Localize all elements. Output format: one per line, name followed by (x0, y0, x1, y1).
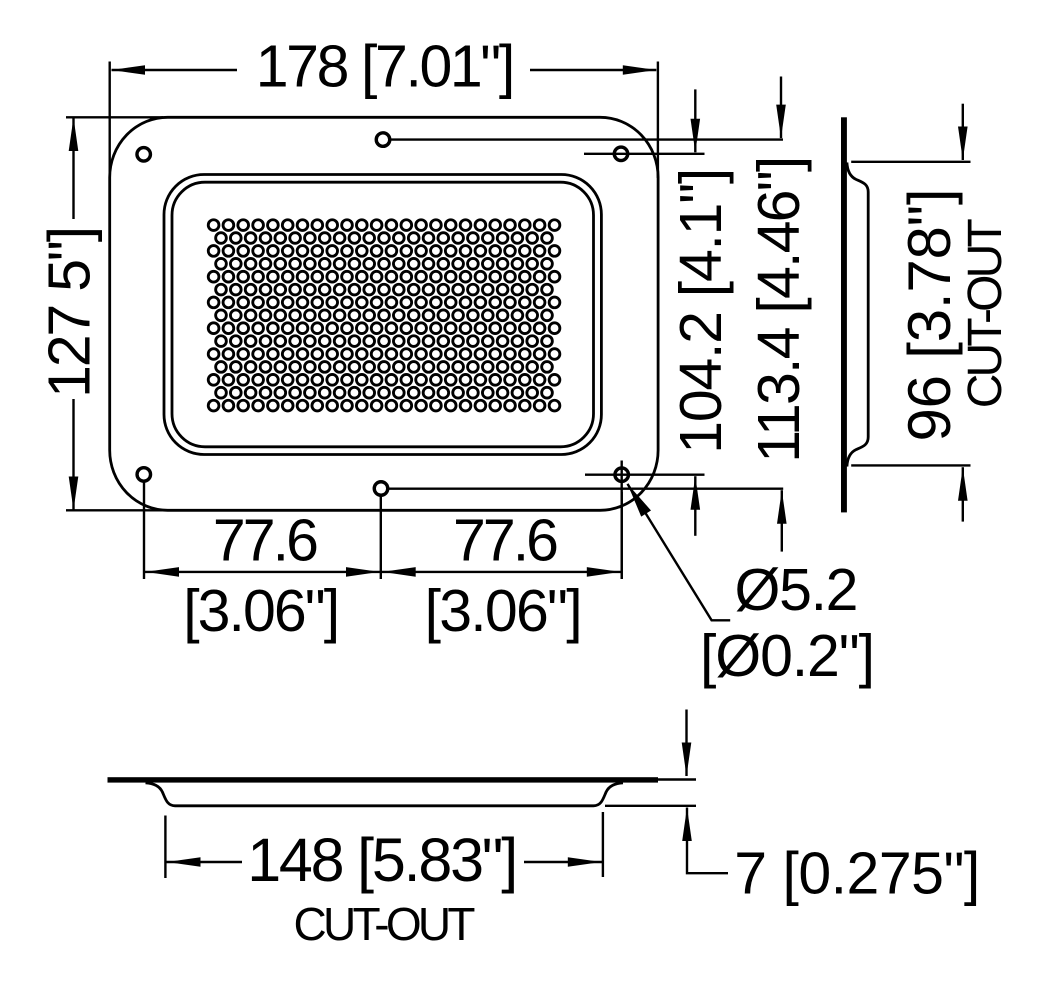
front view: perforated grille hole grid (208, 220, 560, 411)
cutout 96: bottom arrow (outside, pointing up) (962, 467, 964, 521)
front view: recessed dish outer ring (164, 175, 601, 455)
cutout 96: bottom extension line (851, 464, 970, 466)
svg-text:[3.06"]: [3.06"] (425, 578, 583, 644)
bottom view: dish profile (146, 783, 624, 806)
dim 113.4: top arrow (outside, pointing down) (780, 77, 782, 139)
svg-text:7 [0.275"]: 7 [0.275"] (734, 841, 980, 907)
crosshair horizontal line / extension to 104.2 dim (585, 474, 705, 476)
mounting hole top-left (137, 148, 151, 162)
svg-text:96 [3.78"]: 96 [3.78"] (896, 189, 963, 442)
svg-text:[3.06"]: [3.06"] (183, 578, 340, 644)
dim 178: left dimension line + arrow (112, 69, 238, 71)
mounting hole bottom-center (374, 482, 388, 496)
front view: recessed dish inner ring (172, 182, 594, 447)
svg-text:113.4 [4.46"]: 113.4 [4.46"] (746, 156, 812, 463)
dim 104.2: top arrow (outside, pointing down) (694, 89, 696, 152)
svg-text:CUT-OUT: CUT-OUT (294, 898, 476, 950)
dim 113.4: bottom extension line (center-hole row) (389, 488, 783, 490)
hole diameter leader line (628, 484, 731, 620)
svg-text:Ø5.2: Ø5.2 (735, 557, 859, 623)
dim 178: left extension line (108, 62, 110, 181)
dim 77.6 right: dimension line with outward arrows (381, 571, 622, 573)
svg-text:178 [7.01"]: 178 [7.01"] (256, 33, 516, 99)
svg-text:127 5"]: 127 5"] (37, 226, 103, 398)
dim 178: right extension line (657, 62, 659, 179)
dim 113.4: top extension line (center-hole row) (391, 138, 783, 140)
dim 127: lower dimension line + arrow (72, 399, 74, 510)
dim 104.2: top extension line (corner-hole row) (584, 153, 705, 155)
bottom view: plate face (thick bar) (108, 777, 659, 782)
cutout 96: top extension line (851, 161, 970, 163)
dim 7: extension line of dish bottom (605, 805, 696, 807)
mounting hole bottom-left (137, 468, 151, 482)
cutout 148: left dimension line + arrow (165, 861, 242, 863)
dim 77.6 left: extension line from bottom-left hole (143, 482, 145, 579)
svg-text:148 [5.83"]: 148 [5.83"] (247, 826, 518, 894)
svg-text:CUT-OUT: CUT-OUT (959, 218, 1012, 408)
cutout 148: left extension line (164, 816, 166, 879)
side view: plate edge (thick bar) (841, 117, 847, 512)
crosshair vertical line through bottom-right hole (621, 461, 623, 580)
dim 77.6 left: dimension line with outward arrows (144, 571, 381, 573)
dim 7: extension line right of bar (658, 778, 696, 780)
dim 7: upper arrow (outside, pointing down) (685, 710, 687, 777)
cutout 148: right dimension line + arrow (524, 861, 603, 863)
svg-text:104.2 [4.1"]: 104.2 [4.1"] (668, 168, 734, 454)
front view: outer plate outline (110, 117, 658, 510)
cutout 148: right extension line (602, 812, 604, 877)
dim 77.6: center extension line from bottom-center hole (380, 496, 382, 579)
svg-text:77.6: 77.6 (213, 507, 319, 573)
dim 77.6 right: extension line below crosshair hole (621, 492, 623, 579)
dim 104.2: bottom arrow (outside, pointing up) (694, 476, 696, 536)
cutout 96: top arrow (outside, pointing down) (962, 104, 964, 160)
dim 113.4: bottom arrow (outside, pointing up) (781, 490, 783, 551)
side view: dish profile (847, 163, 868, 467)
mounting hole bottom-right with crosshair (615, 468, 629, 482)
mounting hole top-right (614, 147, 628, 161)
dim 127: top extension line (66, 116, 163, 118)
dim 7: lower arrow + leader to text (687, 808, 728, 874)
dim 127: bottom extension line (66, 509, 163, 511)
mounting hole top-center (376, 133, 390, 147)
dim 127: upper dimension line + arrow (72, 118, 74, 220)
svg-text:77.6: 77.6 (453, 507, 559, 573)
dim 178: right dimension line + arrow (530, 69, 656, 71)
svg-text:[Ø0.2"]: [Ø0.2"] (700, 623, 875, 689)
